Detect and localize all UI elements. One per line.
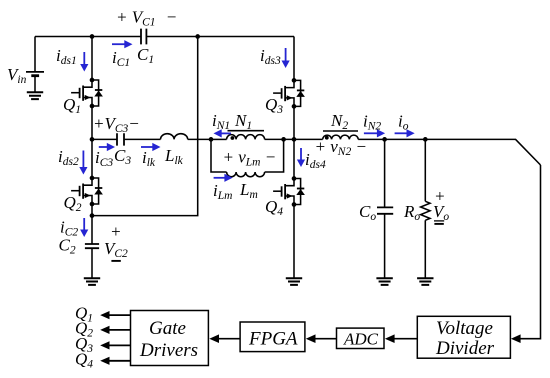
winding N2: [323, 135, 359, 139]
capacitor C2: [85, 244, 99, 248]
svg-text:Drivers: Drivers: [139, 340, 198, 361]
box FPGA: [240, 322, 305, 352]
wire Q4 source to ground: [293, 205, 295, 279]
wire Ro branch: [424, 139, 426, 201]
wire Lm right side: [265, 139, 284, 172]
ground (Ro): [417, 278, 433, 285]
current arrow iC2: [80, 218, 88, 237]
gate drive arrow Q1: [100, 311, 130, 319]
arrow ADC to FPGA: [306, 334, 337, 343]
svg-text:FPGA: FPGA: [248, 329, 298, 350]
wire N1 to Q3Q4 midpoint: [265, 138, 323, 140]
transistor Q4: [273, 176, 305, 207]
capacitor Co: [377, 207, 393, 213]
wire Llk to node: [188, 138, 211, 140]
transistor Q1: [71, 78, 103, 109]
node Lm tap left: [209, 137, 214, 142]
svg-text:ADC: ADC: [343, 330, 379, 349]
resistor Ro: [421, 201, 430, 220]
core bar N2: [323, 130, 358, 132]
svg-text:Gate: Gate: [149, 318, 186, 339]
gate drive arrow Q3: [100, 341, 130, 349]
box Gate Drivers: [131, 311, 209, 366]
polarity dot N1: [231, 136, 235, 140]
label +Vo-: [433, 187, 449, 224]
ground (C2): [84, 278, 100, 285]
wire Q2 source down: [91, 204, 93, 244]
node Co junction: [382, 137, 387, 142]
wire Q3 drain from top rail: [293, 37, 295, 81]
inductor Llk: [161, 134, 188, 140]
current arrow ids4: [297, 148, 305, 167]
box ADC: [337, 328, 385, 348]
wire C3 to Llk: [124, 138, 161, 140]
arrowhead into voltage divider: [511, 334, 521, 343]
wire N2 to output corner: [358, 139, 540, 165]
node Lm tap right: [281, 137, 286, 142]
wire feedback down to voltage divider: [516, 165, 541, 339]
node top rail / Q1: [90, 34, 95, 39]
current arrow iLm: [214, 174, 233, 182]
label +VC2-: [104, 222, 128, 261]
capacitor C1: [141, 29, 146, 45]
current arrow io: [395, 129, 415, 137]
wire flying link: [92, 37, 198, 216]
capacitor C3: [117, 133, 124, 145]
svg-text:Divider: Divider: [435, 338, 495, 359]
voltage source Vin (battery): [26, 72, 44, 92]
winding N1: [227, 135, 265, 140]
arrow VD to ADC: [385, 334, 417, 343]
gate drive arrow Q2: [100, 326, 130, 334]
current arrow iC3: [99, 143, 115, 151]
wire C3 left lead: [92, 138, 117, 140]
current arrow ids1: [80, 52, 88, 72]
current arrow iC1: [112, 40, 133, 48]
current arrow iN1: [214, 129, 232, 137]
wire Co to ground: [384, 214, 386, 278]
wire Q1 drain from top rail: [91, 37, 93, 81]
node C3 junction: [90, 137, 95, 142]
node Q3Q4 midpoint: [292, 137, 297, 142]
wire top rail left of C1: [35, 36, 141, 38]
box Voltage Divider: [417, 316, 510, 359]
gate drive arrow Q4: [100, 357, 130, 365]
inductor Lm: [227, 172, 265, 177]
polarity dot N2: [325, 136, 329, 140]
current arrow iN2: [364, 129, 385, 137]
wire Ro to ground: [424, 220, 426, 278]
current arrow ilk: [141, 143, 161, 151]
node top rail / flying link: [195, 34, 200, 39]
wire Q1 source to C3 node: [91, 106, 93, 178]
transistor Q3: [273, 78, 305, 109]
arrow FPGA to Gate Drivers: [209, 334, 240, 343]
current arrow ids3: [282, 48, 290, 68]
ground (Q4): [286, 278, 302, 285]
ground (Co): [376, 278, 392, 285]
wire Q3 source to midpoint: [293, 106, 295, 178]
core bar N1: [228, 130, 265, 132]
svg-text:Voltage: Voltage: [436, 318, 493, 339]
wire Co branch: [384, 139, 386, 207]
wire C2 to ground: [91, 248, 93, 278]
wire top rail right of C1: [146, 36, 294, 38]
current arrow ids2: [79, 151, 87, 175]
ground (Vin): [27, 92, 43, 99]
wire N1 lead: [211, 138, 227, 140]
transistor Q2: [71, 176, 103, 207]
wire Vin branch: [34, 37, 36, 72]
wire Lm branch: [211, 139, 227, 172]
node Ro junction: [423, 137, 428, 142]
node link junction: [90, 213, 95, 218]
